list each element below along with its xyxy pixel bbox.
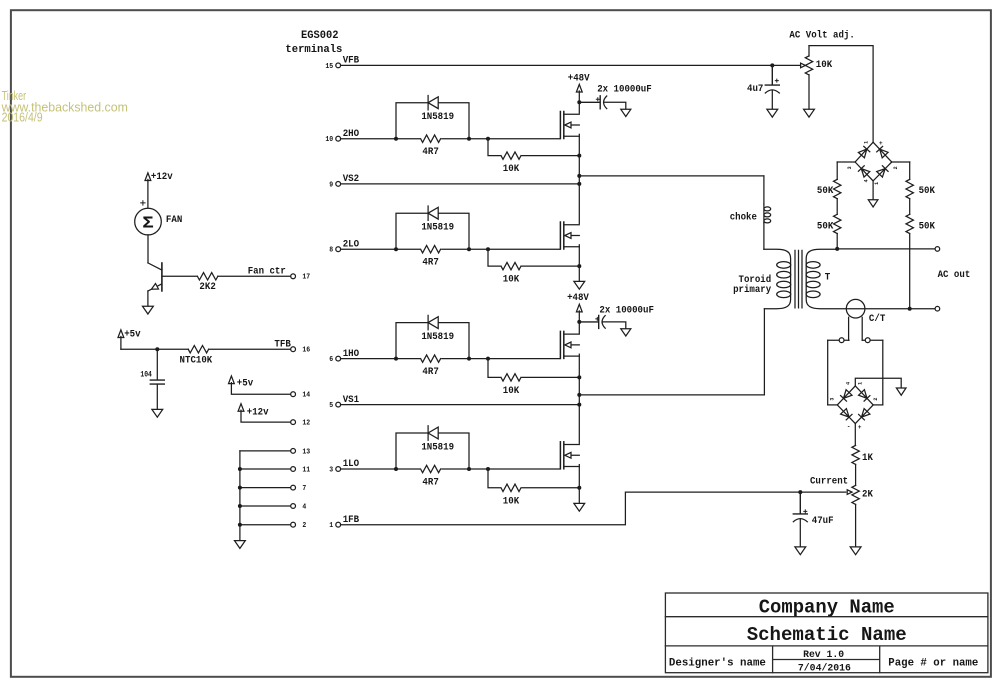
+12v power arrow (fan) (145, 173, 151, 181)
junction 10K at source rail (1LO) (577, 486, 581, 490)
pin 17 circle (291, 274, 296, 279)
wire lower rail bottom (578, 465, 580, 504)
svg-text:15: 15 (325, 63, 333, 71)
resistor NTC10K (188, 346, 208, 353)
bridge rectifier BR2 diode 2 (top-right) (855, 386, 873, 405)
pin 7 circle (291, 485, 296, 490)
wire pot to bridge (809, 46, 873, 143)
C/T box top wires (828, 339, 883, 341)
svg-text:10K: 10K (503, 275, 520, 286)
ground (BR2) (896, 388, 906, 395)
wire VS1 (341, 404, 580, 406)
junction gate node (2LO) (486, 247, 490, 251)
resistor 10K (1HO) (501, 374, 521, 381)
junction VS2 at half-bridge (577, 182, 581, 186)
ground (pin bus) (235, 541, 246, 549)
junction gate node (1LO) (486, 467, 490, 471)
pin 4 circle (291, 504, 296, 509)
svg-text:2: 2 (302, 522, 306, 530)
junction AC out bottom (908, 307, 912, 311)
svg-text:2016/4/9: 2016/4/9 (2, 110, 43, 125)
ground (47uF) (795, 547, 806, 555)
bridge rectifier BR1 diode 3 (bottom-left) (855, 162, 873, 181)
capacitor 47uF (793, 492, 807, 514)
bridge rectifier BR1 diode 4 (bottom-right) (873, 162, 892, 181)
C/T box side wires (828, 340, 883, 405)
terminal AC out top (935, 247, 940, 252)
pin 10 circle (336, 136, 341, 141)
svg-text:6: 6 (329, 356, 333, 364)
svg-text:Company Name: Company Name (759, 596, 895, 618)
svg-text:50K: 50K (817, 186, 834, 197)
wire BR2 top to ground (855, 378, 901, 388)
potentiometer 10K wiper arrow (801, 63, 806, 68)
svg-text:14: 14 (302, 392, 310, 400)
svg-text:17: 17 (302, 274, 310, 282)
svg-text:10K: 10K (503, 386, 520, 397)
pin 1 circle (336, 522, 341, 527)
svg-text:7/04/2016: 7/04/2016 (798, 662, 851, 674)
junction diode left (1HO) (394, 357, 398, 361)
pin 3 circle (336, 467, 341, 472)
svg-text:+5v: +5v (237, 379, 253, 390)
svg-text:4R7: 4R7 (422, 367, 438, 378)
mosfet Q3 (1HO) (559, 331, 561, 358)
svg-text:3: 3 (329, 466, 333, 474)
svg-text:4: 4 (302, 503, 307, 511)
svg-text:Current: Current (810, 476, 848, 487)
ground (2LO source) (574, 281, 585, 289)
wire emitter to ground (147, 291, 149, 306)
svg-text:50K: 50K (919, 221, 936, 232)
wire half-bridge to choke (579, 175, 764, 177)
svg-text:4: 4 (845, 382, 851, 385)
svg-text:3: 3 (847, 166, 853, 169)
pin 2 circle (291, 522, 296, 527)
svg-text:10K: 10K (503, 164, 520, 175)
svg-text:13: 13 (302, 448, 310, 456)
junction toroid tap (577, 393, 581, 397)
wire AC out bottom (910, 308, 935, 310)
svg-text:4u7: 4u7 (747, 84, 763, 95)
wire pin to gate network (1LO) (341, 468, 560, 470)
+48V power arrow (lower) (576, 304, 582, 312)
svg-text:choke: choke (730, 211, 757, 223)
resistor 10K (2LO) (501, 262, 521, 269)
pin 14 circle (291, 392, 296, 397)
svg-text:8: 8 (329, 247, 333, 255)
wire BR2 left stub (828, 404, 838, 406)
capacitor 2x 10000uF (lower) (579, 315, 598, 328)
svg-text:11: 11 (302, 466, 310, 474)
wire choke top (763, 176, 765, 204)
wire VFB (341, 64, 773, 66)
ground (fan transistor) (143, 306, 154, 314)
junction VS1 at half-bridge (577, 403, 581, 407)
svg-text:+48V: +48V (568, 73, 591, 84)
svg-text:C/T: C/T (869, 313, 885, 325)
wire pin to gate network (2LO) (341, 248, 560, 250)
wire bus to pin 2 (240, 524, 291, 526)
pin 11 circle (291, 467, 296, 472)
svg-text:1: 1 (329, 522, 334, 530)
junction bus pin 2 (238, 523, 242, 527)
svg-text:2K: 2K (862, 490, 874, 501)
svg-text:AC out: AC out (938, 270, 971, 281)
wire choke to toroid (763, 223, 765, 250)
svg-text:+5v: +5v (124, 330, 140, 341)
wire BR1 right stub (892, 161, 910, 163)
junction diode right (2LO) (467, 247, 471, 251)
junction bus pin 11 (238, 467, 242, 471)
bridge rectifier BR2 diode 1 (top-left) (837, 386, 855, 405)
resistor 50K (right lower) (906, 214, 913, 233)
capacitor 4u7 (765, 65, 779, 85)
transformer T1 secondary winding (806, 249, 910, 308)
junction 10K at source rail (2HO) (577, 154, 581, 158)
svg-text:FAN: FAN (166, 215, 182, 226)
pin 5 circle (336, 402, 341, 407)
svg-text:1K: 1K (862, 453, 874, 464)
wire pin to gate network (2HO) (341, 138, 560, 140)
junction +48V cap (upper) (577, 100, 581, 104)
svg-text:47uF: 47uF (812, 516, 834, 527)
ground (upper cap) (621, 109, 631, 116)
resistor 50K (left lower) (834, 214, 841, 233)
svg-text:+12v: +12v (247, 407, 269, 418)
svg-text:16: 16 (302, 347, 310, 355)
svg-text:50K: 50K (817, 221, 834, 232)
svg-text:EGS002: EGS002 (301, 30, 339, 42)
transformer T1 core (795, 250, 802, 308)
wire bus to pin 11 (240, 468, 291, 470)
ground (BR1) (868, 200, 878, 207)
junction gate node (2HO) (486, 137, 490, 141)
svg-text:Fan ctr: Fan ctr (248, 267, 286, 278)
wire lower rail mid (578, 354, 580, 443)
pin 6 circle (336, 356, 341, 361)
resistor 4R7 (2HO) (421, 135, 441, 142)
junction +48V cap (lower) (577, 320, 581, 324)
bridge rectifier BR1 diode 1 (left-top) (855, 142, 873, 162)
junction bus pin 7 (238, 486, 242, 490)
junction 10K at source rail (1HO) (577, 375, 581, 379)
pin 15 circle (336, 63, 341, 68)
pin 16 circle (291, 347, 296, 352)
+5v power arrow (NTC) (118, 330, 124, 338)
+12v power arrow (pin12) (238, 404, 244, 412)
fan motor M1 circle (135, 208, 162, 235)
svg-text:2: 2 (893, 166, 899, 169)
junction 10K at source rail (2LO) (577, 264, 581, 268)
resistor 2K2 (197, 273, 217, 280)
pin 12 circle (291, 420, 296, 425)
junction bus pin 4 (238, 504, 242, 508)
junction 47uF (798, 490, 802, 494)
svg-text:+: + (858, 424, 862, 431)
wire BR2 bottom to 1K (854, 424, 856, 446)
diode 1N5819 (1HO) (428, 315, 438, 329)
terminal C/T right (865, 338, 870, 343)
ground (lower cap) (621, 329, 631, 336)
svg-text:1: 1 (857, 382, 863, 385)
svg-text:1N5819: 1N5819 (421, 443, 454, 454)
pin 8 circle (336, 247, 341, 252)
wire 1K to 2K (855, 464, 857, 485)
junction diode right (1HO) (467, 357, 471, 361)
ground (1LO source) (574, 503, 585, 511)
svg-text:2x 10000uF: 2x 10000uF (597, 85, 652, 96)
wire pin to gate network (1HO) (341, 358, 560, 360)
svg-text:9: 9 (329, 181, 333, 189)
svg-text:Rev 1.0: Rev 1.0 (803, 650, 844, 661)
diode 1N5819 (1LO) (428, 426, 438, 440)
junction (104 cap) (155, 347, 159, 351)
bridge rectifier BR2 diode 4 (right-bottom) (855, 405, 873, 424)
junction gate node (1HO) (486, 357, 490, 361)
svg-text:1: 1 (864, 141, 870, 144)
current transformer C/T circle (846, 299, 865, 318)
ground bus vertical wire (239, 451, 241, 541)
wire 2K2 to pin 17 (218, 275, 291, 277)
wire lower rail of upper bridge (578, 245, 580, 282)
diode 1N5819 loop wires (2HO) (396, 103, 469, 139)
svg-text:10K: 10K (503, 496, 520, 507)
svg-text:T: T (825, 272, 831, 283)
junction diode left (1LO) (394, 467, 398, 471)
svg-text:2x 10000uF: 2x 10000uF (599, 305, 654, 316)
fan plus sign (141, 201, 145, 205)
wire bus to pin 7 (240, 487, 291, 489)
resistor 1K (852, 445, 859, 464)
svg-text:2K2: 2K2 (199, 282, 215, 293)
resistor 50K (left upper) (836, 162, 838, 179)
wire VFB to pot wiper (772, 64, 800, 66)
ground (2K pot) (850, 547, 861, 555)
svg-text:Designer's name: Designer's name (669, 657, 766, 669)
resistor 2K (Current pot) (852, 485, 859, 504)
diode 1N5819 loop wires (1HO) (396, 323, 469, 359)
junction choke tap (577, 174, 581, 178)
ground (pot) (804, 109, 815, 117)
resistor 4R7 (1HO) (421, 355, 441, 362)
wire fan to transistor (147, 235, 149, 263)
bridge rectifier BR2 diode 3 (left-bottom) (837, 405, 855, 424)
wire 1FB (341, 492, 846, 525)
wire AC out top (837, 248, 935, 250)
svg-text:1N5819: 1N5819 (421, 332, 454, 343)
capacitor 2x 10000uF (upper) (579, 96, 600, 109)
wire BR1 left stub (837, 161, 855, 163)
capacitor 104 (156, 349, 158, 379)
wire gate to 10K (2LO) (488, 249, 579, 266)
diode 1N5819 loop wires (2LO) (396, 213, 469, 249)
pin 13 circle (291, 449, 296, 454)
+48V power arrow (upper) (576, 84, 582, 92)
svg-text:4R7: 4R7 (422, 258, 438, 269)
svg-text:Σ: Σ (142, 214, 154, 233)
transformer T1 primary winding (764, 249, 791, 308)
wire +5v to NTC (121, 348, 188, 350)
wire gate to 10K (1LO) (488, 469, 579, 488)
wire bus to pin 4 (240, 505, 291, 507)
svg-text:4: 4 (864, 179, 870, 182)
svg-text:+12v: +12v (151, 172, 173, 183)
title block frame (665, 593, 988, 673)
svg-text:104: 104 (140, 371, 152, 380)
wire gate to 10K (2HO) (488, 139, 579, 156)
svg-text:terminals: terminals (285, 44, 342, 56)
svg-text:4R7: 4R7 (422, 147, 438, 158)
diode 1N5819 (2LO) (428, 206, 438, 220)
svg-text:10: 10 (325, 136, 333, 144)
bridge rectifier BR1 diode 2 (right-top) (873, 142, 892, 162)
svg-text:12: 12 (302, 420, 310, 428)
svg-text:1: 1 (874, 182, 880, 185)
svg-text:50K: 50K (919, 186, 936, 197)
pin 9 circle (336, 182, 341, 187)
transistor Q1 NPN (161, 263, 163, 291)
svg-text:4R7: 4R7 (422, 477, 438, 488)
+5v power arrow (pin14) (229, 376, 235, 384)
potentiometer Current wiper arrow (847, 490, 852, 495)
diode 1N5819 loop wires (1LO) (396, 433, 469, 469)
resistor 10K (1LO) (501, 484, 521, 491)
svg-text:5: 5 (329, 402, 333, 410)
svg-text:3: 3 (829, 398, 835, 401)
svg-text:Page # or name: Page # or name (888, 657, 978, 669)
resistor 10K (2HO) (501, 152, 521, 159)
junction diode left (2LO) (394, 247, 398, 251)
svg-text:1N5819: 1N5819 (421, 112, 454, 123)
wire bus to pin 13 (240, 450, 291, 452)
svg-text:-: - (847, 424, 851, 431)
potentiometer 10K (AC Volt adj) (808, 46, 810, 56)
junction VFB 4u7 (770, 63, 774, 67)
wire VS2 (341, 183, 580, 185)
ground (4u7) (767, 109, 778, 117)
junction diode right (2HO) (467, 137, 471, 141)
svg-text:2: 2 (873, 398, 879, 401)
svg-text:NTC10K: NTC10K (180, 355, 213, 366)
svg-text:primary: primary (733, 284, 771, 296)
mosfet Q2 (2LO) (559, 222, 561, 249)
svg-text:Schematic Name: Schematic Name (747, 624, 907, 646)
wire BR1 bottom to ground (872, 181, 874, 200)
svg-text:TFB: TFB (274, 340, 290, 351)
resistor 50K (right upper) (909, 162, 911, 179)
resistor 4R7 (1LO) (421, 465, 441, 472)
junction AC out top (835, 247, 839, 251)
wire upper rail mid (578, 134, 580, 223)
wire BR2 right stub (873, 404, 883, 406)
wire half-bridge to toroid (579, 309, 764, 395)
svg-text:1N5819: 1N5819 (421, 223, 454, 234)
mosfet Q1 (2HO) (559, 112, 561, 139)
junction diode left (2HO) (394, 137, 398, 141)
wire base to resistor (162, 275, 198, 277)
junction diode right (1LO) (467, 467, 471, 471)
ground (104 cap) (152, 409, 163, 417)
terminal C/T left (839, 338, 844, 343)
diode 1N5819 (2HO) (428, 96, 438, 110)
svg-text:+: + (879, 140, 883, 147)
mosfet Q4 (1LO) (559, 442, 561, 469)
terminal AC out bottom (935, 306, 940, 311)
wire NTC to pin 16 (209, 348, 291, 350)
svg-text:+48V: +48V (567, 293, 590, 304)
svg-text:10K: 10K (816, 60, 833, 71)
C/T secondary leads (849, 317, 863, 340)
inductor choke (764, 207, 771, 211)
wire gate to 10K (1HO) (488, 359, 579, 378)
resistor 4R7 (2LO) (421, 246, 441, 253)
svg-text:7: 7 (302, 485, 306, 493)
svg-text:AC Volt adj.: AC Volt adj. (789, 30, 854, 42)
